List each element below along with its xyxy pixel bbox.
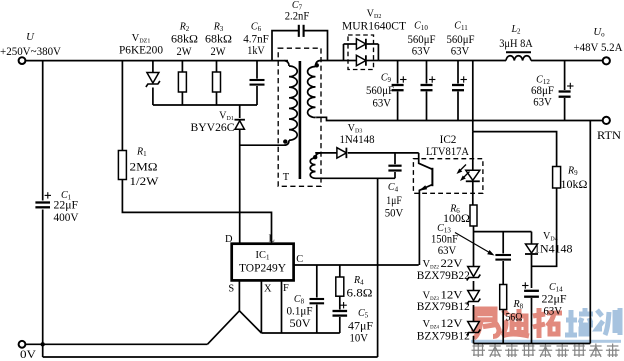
diode VD4 1N4148: [531, 232, 533, 244]
svg-text:+250V~380V: +250V~380V: [0, 44, 61, 58]
transformer aux winding: [316, 153, 321, 158]
op-amp IC1 TOP249Y box: [232, 244, 294, 281]
diode VD2 MUR1640CT: [348, 35, 374, 70]
wire snubber bus: [153, 104, 257, 106]
wire R8 to rail: [502, 310, 504, 344]
svg-text:LTV817A: LTV817A: [426, 144, 469, 158]
wire bottom return line: [43, 356, 378, 358]
wire VD1 to drain node: [239, 129, 241, 243]
inductor L2 3uH 8A: [506, 51, 531, 53]
svg-text:68kΩ: 68kΩ: [205, 32, 232, 46]
svg-text:2.2nF: 2.2nF: [285, 8, 310, 22]
svg-text:+48V 5.2A: +48V 5.2A: [574, 40, 623, 54]
svg-text:63V: 63V: [544, 306, 563, 318]
wire R1 to L pin: [122, 180, 271, 244]
resistor R3 68k 2W: [213, 72, 221, 92]
svg-text:F: F: [283, 283, 289, 294]
svg-text:63V: 63V: [451, 46, 470, 58]
svg-text:150nF: 150nF: [431, 234, 458, 246]
wire input left branch down: [42, 61, 44, 201]
wire R9 down: [532, 188, 557, 266]
wire zener link1: [473, 281, 475, 291]
svg-text:2MΩ: 2MΩ: [130, 162, 158, 174]
svg-text:560μF: 560μF: [408, 33, 437, 46]
junction 0V node: [41, 342, 45, 346]
svg-text:50V: 50V: [290, 318, 312, 330]
svg-text:0.1μF: 0.1μF: [287, 306, 313, 318]
wire aux bottom: [316, 177, 396, 179]
svg-text:BZX79B12: BZX79B12: [417, 301, 470, 313]
svg-text:BYV26C: BYV26C: [191, 120, 235, 134]
wire source bus: [261, 332, 339, 334]
svg-text:560μF: 560μF: [366, 84, 395, 97]
diode VD1 BYV26C: [239, 105, 241, 118]
svg-text:47μF: 47μF: [348, 321, 373, 333]
svg-text:68μF: 68μF: [531, 84, 555, 97]
svg-text:6.8Ω: 6.8Ω: [347, 288, 373, 300]
svg-text:12V: 12V: [441, 318, 464, 330]
zener VDZ2 22V BZX79B22: [468, 267, 480, 277]
svg-text:MUR1640CT: MUR1640CT: [342, 19, 407, 33]
svg-text:63V: 63V: [412, 46, 431, 58]
resistor R3 wire: [216, 61, 218, 72]
svg-text:T: T: [283, 172, 290, 183]
capacitor C10 560uF: [426, 61, 428, 84]
capacitor C8 0.1uF 50V: [316, 265, 318, 298]
resistor R8 56: [500, 285, 507, 310]
svg-text:10V: 10V: [350, 333, 369, 345]
wire X pin: [260, 280, 262, 333]
wire secondary top: [321, 60, 344, 62]
zener VDZ3 12V BZX79B12: [468, 291, 480, 301]
capacitor C9 560uF: [397, 61, 399, 84]
svg-text:X: X: [264, 284, 272, 295]
resistor R4 6.8: [339, 265, 341, 277]
svg-text:50V: 50V: [385, 208, 404, 220]
wire secondary bottom rail: [474, 343, 591, 345]
svg-text:U: U: [26, 31, 35, 43]
watermark tagline: [472, 344, 620, 358]
wire secondary return: [321, 117, 603, 120]
wire VD4 to C14: [531, 255, 533, 288]
svg-text:3μH 8A: 3μH 8A: [499, 37, 533, 50]
wire top rail: [26, 60, 288, 62]
capacitor C1: [35, 201, 50, 203]
resistor R2 68k 2W: [178, 72, 186, 92]
optocoupler IC2 LTV817A dashed box: [413, 159, 483, 194]
svg-text:2W: 2W: [177, 46, 192, 58]
aux polarity dot: [313, 155, 317, 159]
opto phototransistor: [419, 153, 433, 169]
svg-text:63V: 63V: [373, 98, 392, 110]
svg-text:TOP249Y: TOP249Y: [239, 261, 286, 275]
capacitor C5 47uF 10V: [339, 296, 341, 309]
transformer T dashed box: [278, 48, 321, 186]
wire 0V rail: [26, 343, 208, 345]
svg-text:56Ω: 56Ω: [506, 312, 523, 324]
svg-text:560μF: 560μF: [447, 33, 476, 46]
svg-text:0V: 0V: [20, 349, 37, 361]
wire 48V to LED: [472, 61, 474, 132]
terminal +48V: [603, 57, 610, 64]
svg-text:S: S: [228, 284, 234, 295]
svg-text:BZX79B12: BZX79B12: [417, 330, 470, 342]
wire L2 to output terminal: [531, 60, 603, 62]
svg-text:RTN: RTN: [597, 129, 622, 142]
svg-text:1kV: 1kV: [247, 45, 265, 57]
svg-text:1μF: 1μF: [386, 195, 402, 207]
wire R6 node: [473, 226, 475, 267]
transformer secondary winding: [316, 61, 321, 67]
terminal RTN: [603, 117, 610, 124]
svg-text:2W: 2W: [211, 46, 226, 58]
wire VD3 to opto collector: [348, 152, 419, 154]
wire primary bottom to drain: [240, 144, 286, 146]
wire aux top: [315, 152, 337, 154]
capacitor C13 150nF 63V: [502, 232, 504, 254]
resistor R9 10k: [553, 167, 561, 189]
resistor R2 wire: [181, 61, 183, 72]
primary polarity dot: [283, 139, 287, 143]
wire right edge: [589, 121, 591, 344]
svg-text:10kΩ: 10kΩ: [561, 179, 588, 191]
svg-text:L: L: [269, 234, 275, 245]
wire fb node horizontal: [474, 231, 532, 233]
svg-text:D: D: [225, 234, 233, 245]
capacitor C7 2.2nF: [272, 31, 298, 61]
capacitor C6 4.7nF: [250, 79, 265, 81]
watermark logo: [473, 309, 499, 338]
wire LED node to R9: [473, 132, 557, 167]
wire zener link2: [473, 305, 475, 322]
TVS VDZ1 P6KE200: [147, 73, 159, 84]
capacitor C11 560uF: [457, 61, 459, 84]
input terminal U +: [19, 57, 26, 64]
secondary polarity dot: [315, 63, 319, 67]
wire S pin: [238, 280, 240, 310]
wire zener to rail: [473, 336, 475, 344]
capacitor C4 1uF 50V: [394, 153, 396, 164]
terminal 0V: [19, 341, 26, 348]
transformer core: [299, 61, 302, 179]
diode VD3 1N4148: [337, 148, 347, 158]
zener VDZ4 12V BZX79B12: [468, 322, 480, 332]
svg-text:63V: 63V: [533, 97, 552, 109]
wire S to 0V diagonal: [207, 311, 261, 345]
opto light arrows: [459, 165, 467, 173]
transformer primary winding: [285, 61, 290, 66]
svg-text:22μF: 22μF: [542, 294, 567, 306]
svg-text:63V: 63V: [438, 245, 457, 257]
resistor R1: [118, 151, 126, 180]
wire output rail: [378, 60, 506, 62]
svg-text:C: C: [296, 254, 303, 265]
svg-text:BZX79B22: BZX79B22: [417, 270, 470, 282]
wire C pin to opto emitter: [294, 264, 419, 266]
wire aux return down: [377, 178, 379, 357]
capacitor C6 wire: [256, 61, 258, 79]
capacitor C14 22uF 63V: [524, 290, 539, 292]
TVS VDZ1 wire: [152, 61, 154, 73]
svg-text:P6KE200: P6KE200: [119, 43, 163, 57]
svg-text:1N4148: 1N4148: [534, 243, 573, 256]
svg-text:400V: 400V: [54, 212, 80, 224]
wire F pin: [281, 280, 283, 333]
svg-text:100Ω: 100Ω: [443, 213, 470, 225]
resistor R6 100: [470, 205, 477, 226]
svg-text:1/2W: 1/2W: [130, 176, 159, 188]
capacitor C12 68uF: [564, 61, 566, 91]
wire C1 bottom to 0V node: [42, 210, 44, 358]
svg-text:68kΩ: 68kΩ: [171, 32, 198, 46]
svg-text:1N4148: 1N4148: [340, 132, 375, 146]
svg-text:12V: 12V: [441, 290, 464, 302]
resistor R1 branch wire: [121, 61, 123, 151]
svg-text:22V: 22V: [441, 258, 464, 270]
svg-text:4.7nF: 4.7nF: [243, 32, 269, 46]
svg-text:22μF: 22μF: [54, 200, 79, 212]
opto LED: [472, 132, 474, 171]
